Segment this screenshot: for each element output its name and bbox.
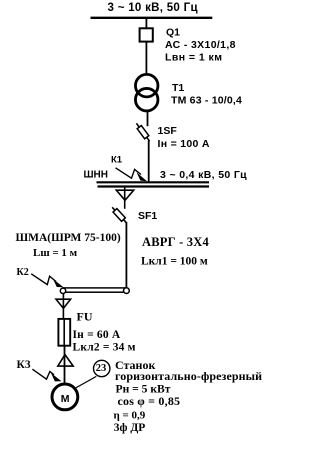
svg-text:1SF: 1SF [158, 125, 178, 137]
svg-text:cos φ = 0,85: cos φ = 0,85 [118, 394, 181, 408]
wire SF1 to busway [125, 222, 127, 288]
plug connector below busway [56, 293, 71, 319]
svg-text:ТМ 63 - 10/0,4: ТМ 63 - 10/0,4 [171, 95, 242, 107]
svg-text:3ф ДР: 3ф ДР [114, 422, 146, 434]
svg-text:η = 0,9: η = 0,9 [114, 409, 146, 421]
switch Q1 [140, 28, 153, 41]
motor M [52, 384, 78, 410]
wire through fuse [63, 319, 65, 346]
connector above motor [58, 355, 73, 367]
svg-text:Iн = 100 А: Iн = 100 А [158, 138, 210, 150]
breaker SF1 [112, 207, 126, 222]
bus 10kV (top busbar) [91, 17, 213, 19]
fault arrow K1 [116, 168, 148, 182]
svg-text:К1: К1 [111, 155, 123, 166]
svg-text:Q1: Q1 [166, 27, 180, 39]
transformer T1 [135, 74, 158, 111]
fault arrow K3 [32, 369, 61, 381]
tag circle 23 [94, 360, 110, 376]
fault arrow K2 [31, 274, 63, 287]
svg-text:АВРГ - 3X4: АВРГ - 3X4 [142, 235, 209, 249]
svg-text:горизонтально-фрезерный: горизонтально-фрезерный [115, 369, 262, 383]
breaker 1SF [136, 123, 149, 141]
svg-text:Lкл1 = 100 м: Lкл1 = 100 м [141, 256, 208, 268]
svg-text:М: М [61, 393, 70, 405]
svg-text:Iн = 60 А: Iн = 60 А [73, 329, 121, 341]
wire bus to Q1 [145, 18, 147, 29]
svg-text:3 ~ 10 кВ, 50 Гц: 3 ~ 10 кВ, 50 Гц [108, 2, 198, 14]
node right busway circle [124, 288, 130, 294]
svg-text:К2: К2 [17, 267, 29, 278]
bus ShNN (double busbar 0.4kV) [97, 182, 210, 186]
wire fuse to motor [64, 346, 66, 383]
svg-text:Lш = 1 м: Lш = 1 м [33, 247, 78, 259]
svg-text:23: 23 [96, 363, 107, 374]
wire motor to tag 23 [76, 376, 97, 388]
svg-text:Т1: Т1 [172, 82, 184, 94]
svg-text:FU: FU [77, 310, 93, 324]
svg-text:ШМА(ШРМ 75-100): ШМА(ШРМ 75-100) [16, 232, 121, 244]
svg-text:К3: К3 [17, 359, 31, 371]
wire T1 to 1SF [147, 111, 149, 126]
svg-text:Lкл2 = 34 м: Lкл2 = 34 м [73, 342, 136, 354]
node left busway circle [60, 288, 65, 293]
svg-text:Lвн = 1 км: Lвн = 1 км [165, 51, 222, 63]
svg-text:3 ~ 0,4 кВ, 50 Гц: 3 ~ 0,4 кВ, 50 Гц [160, 169, 247, 181]
plug connector below bus [116, 188, 133, 209]
svg-text:ШНН: ШНН [84, 170, 109, 181]
wire Q1 to T1 [145, 42, 147, 74]
fuse FU [58, 319, 70, 346]
busway ShMA (horizontal trunk) [63, 288, 126, 292]
wire 1SF to bus 0.4kV [148, 141, 150, 183]
svg-text:SF1: SF1 [138, 210, 157, 222]
svg-text:АС - 3X10/1,8: АС - 3X10/1,8 [165, 39, 236, 51]
